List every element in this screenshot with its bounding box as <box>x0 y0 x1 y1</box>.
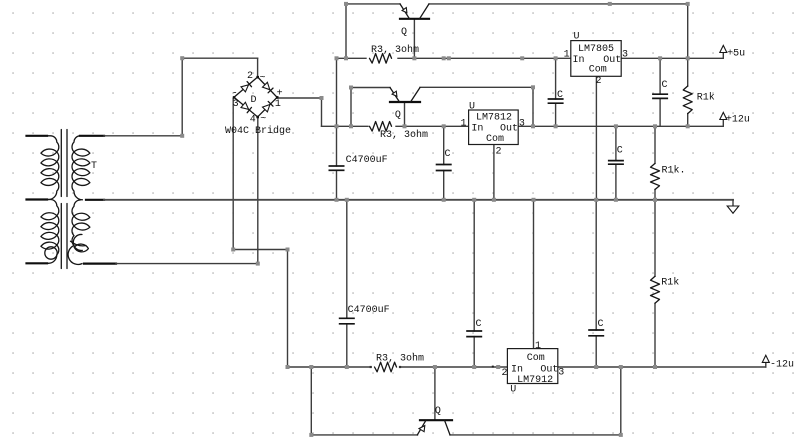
node +5v port flag <box>720 45 727 58</box>
wire Q3 collector up to -12 out <box>620 367 622 435</box>
junction ground at main vertical <box>335 198 339 202</box>
wire negative down to -12v rail <box>287 250 289 368</box>
svg-text:Com: Com <box>589 65 607 76</box>
junction +12 in at emitter feed <box>349 124 353 128</box>
wire Q1 emitter feed vertical <box>345 4 347 58</box>
wire +12 output line <box>518 125 723 127</box>
junction +5 line at Q1 base <box>412 56 416 60</box>
svg-text:U: U <box>469 101 475 112</box>
svg-text:3: 3 <box>519 118 525 129</box>
capacitor C (at 616) <box>608 161 624 165</box>
junction +12 in at main vertical <box>335 124 339 128</box>
transistor Q1 <box>400 4 429 19</box>
svg-text:C: C <box>476 319 482 330</box>
wire top rail down to R1k <box>687 4 689 86</box>
diode D top-right <box>263 82 274 93</box>
wire -12 input line after R3 to LM7912 <box>401 366 507 368</box>
node -12v port flag <box>762 355 769 367</box>
svg-text:C4700uF: C4700uF <box>346 155 388 166</box>
wire Q2 collector down to +12 out <box>532 87 534 126</box>
wire Q3 base vertical <box>434 367 436 420</box>
junction +12 out at R1k top <box>686 124 690 128</box>
capacitor C4700uF (lower) <box>339 318 355 324</box>
junction +5 out at R1k <box>686 56 690 60</box>
junction negative jog corner <box>286 248 290 252</box>
junction +5 line stub b <box>447 56 451 60</box>
wire Q3 collector horizontal <box>450 434 621 436</box>
wire main positive vertical upper <box>336 58 338 166</box>
wire C4700uF lower branch upper <box>346 200 348 318</box>
junction Q2 collector corner <box>531 85 535 89</box>
svg-text:1: 1 <box>275 99 281 110</box>
transformer T primary bottom lead <box>27 262 48 264</box>
wire +5 input line after R3 to LM7805 <box>398 57 571 59</box>
svg-text:1: 1 <box>564 50 570 61</box>
junction +5 line at main vertical <box>335 56 339 60</box>
svg-text:W04C Bridge: W04C Bridge <box>225 125 291 137</box>
svg-text:-12u: -12u <box>770 360 794 371</box>
svg-text:Q: Q <box>395 110 401 121</box>
wire capacitor branch upper (C at 596) <box>595 200 597 330</box>
svg-text:U: U <box>510 385 516 396</box>
junction +5 line stub c <box>520 56 524 60</box>
svg-text:Q: Q <box>435 406 441 417</box>
capacitor C (at 443.7) <box>436 165 452 171</box>
svg-text:C: C <box>445 149 451 160</box>
wire capacitor branch lower (C at 616) <box>615 164 617 200</box>
junction -12 in at C 474 <box>472 365 476 369</box>
wire bridge pin1 right <box>277 97 321 99</box>
resistor R1k (middle) <box>651 163 660 189</box>
svg-text:In: In <box>471 124 483 135</box>
junction -12 out at C 596 <box>594 365 598 369</box>
svg-text:R1k: R1k <box>697 91 715 103</box>
junction +12 out at C 555 <box>554 124 558 128</box>
svg-text:4: 4 <box>250 114 256 125</box>
wire capacitor branch lower (C at 555.6) <box>555 103 557 126</box>
junction -12 out at R1k chain <box>653 365 657 369</box>
wire LM7912 com up to ground <box>533 200 535 349</box>
wire positive down <box>321 98 323 126</box>
svg-text:Com: Com <box>527 353 545 364</box>
ground rail <box>104 199 733 201</box>
junction at bridge output corner <box>320 96 324 100</box>
svg-text:LM7912: LM7912 <box>517 375 553 386</box>
junction -12 in at C4700 lower <box>345 365 349 369</box>
junction ground at LM7812 com <box>492 198 496 202</box>
junction +12 in at Q2 base <box>403 124 407 128</box>
wire Q2 emitter feed vertical <box>350 88 352 127</box>
svg-text:~: ~ <box>260 73 266 84</box>
wire +5 output line <box>621 57 723 59</box>
svg-text:3: 3 <box>622 50 628 61</box>
junction +5 out at C 660 <box>658 56 662 60</box>
wire negative jog horizontal <box>233 249 287 251</box>
wire capacitor branch upper (C at 443.7) <box>443 126 445 164</box>
transformer T primary top winding <box>41 136 59 200</box>
svg-text:R3, 3ohm: R3, 3ohm <box>371 44 419 56</box>
capacitor C (at 555.6) <box>548 99 564 103</box>
svg-text:2: 2 <box>247 71 253 82</box>
diode D top-left <box>241 82 252 92</box>
junction top rail left corner <box>344 2 348 6</box>
svg-text:Q: Q <box>401 27 407 38</box>
wire bridge pin3 down <box>232 98 234 249</box>
junction bridge AC bottom at transformer lead <box>256 262 260 266</box>
svg-text:+: + <box>277 88 283 99</box>
wire R1k chain +12 to ground upper <box>654 126 656 163</box>
svg-text:Com: Com <box>486 134 504 145</box>
junction at AC top corner <box>180 56 184 60</box>
svg-text:-: - <box>232 89 238 100</box>
wire C4700uF lower branch lower <box>346 324 348 367</box>
junction negative jog top <box>231 248 235 252</box>
wire R1k to +12 output line <box>687 114 689 127</box>
junction ground at C 474 <box>472 198 476 202</box>
wire secondary top lead to node <box>104 135 182 137</box>
wire capacitor branch upper (C at 474) <box>473 200 475 331</box>
svg-text:1: 1 <box>535 341 541 352</box>
bridge rectifier D diamond <box>234 77 277 117</box>
junction ground at LM7912 com <box>532 198 536 202</box>
transformer T primary top lead <box>27 135 48 137</box>
transformer T primary bottom winding <box>41 200 59 264</box>
node +12v port flag <box>720 112 727 126</box>
svg-text:2: 2 <box>496 147 502 158</box>
junction +5 line at C 555 <box>554 56 558 60</box>
svg-text:+5u: +5u <box>727 49 745 60</box>
junction +12 out at C 616 <box>614 124 618 128</box>
wire capacitor branch upper (C at 660) <box>659 58 661 94</box>
wire Q3 emitter feed vertical <box>310 367 312 435</box>
junction ground at C 616 <box>614 198 618 202</box>
junction Q2 emitter corner <box>349 86 353 90</box>
diode D bottom-left <box>241 102 252 112</box>
capacitor C (at 660) <box>652 94 668 98</box>
junction +5 line at emitter feed <box>344 56 348 60</box>
svg-text:R3, 3ohm: R3, 3ohm <box>380 129 428 141</box>
op-amp U3 LM7912 box <box>507 349 557 384</box>
resistor R1k (top) <box>683 86 692 114</box>
wire Q2 base vertical <box>404 102 406 126</box>
junction -12 out at collector riser <box>619 365 623 369</box>
junction -12 in pin stub <box>492 366 494 368</box>
transistor Q3 <box>417 420 452 435</box>
resistor R3 (+5 branch) <box>370 54 392 64</box>
svg-text:C: C <box>598 319 604 330</box>
wire capacitor branch lower (C at 474) <box>473 337 475 367</box>
svg-text:C4700uF: C4700uF <box>348 305 390 316</box>
wire -12 output line <box>558 366 766 368</box>
wire positive to +12 input line <box>322 125 369 127</box>
wire main positive vertical lower <box>336 170 338 200</box>
junction -12 in at Q3 base <box>433 365 437 369</box>
transformer T primary center lead <box>27 198 48 200</box>
svg-text:LM7805: LM7805 <box>578 44 614 55</box>
svg-text:In: In <box>511 365 523 376</box>
svg-text:C: C <box>662 80 668 91</box>
wire capacitor branch lower (C at 660) <box>659 98 661 126</box>
svg-text:R3, 3ohm: R3, 3ohm <box>376 353 424 365</box>
transformer T secondary top winding <box>72 136 90 200</box>
wire R1k chain lower to -12 out <box>654 303 656 367</box>
wire -12 input line left <box>288 366 372 368</box>
junction at transformer top lead <box>180 134 184 138</box>
wire capacitor branch lower (C at 596) <box>595 336 597 367</box>
svg-text:Out: Out <box>500 124 518 135</box>
op-amp U1 LM7805 box <box>571 41 621 77</box>
svg-text:R1k.: R1k. <box>662 165 686 177</box>
wire R1k chain middle <box>654 190 656 277</box>
svg-text:Out: Out <box>540 365 558 376</box>
wire top rail to Q1 emitter <box>346 3 400 5</box>
svg-text:R1k: R1k <box>661 277 679 289</box>
svg-text:~: ~ <box>260 114 266 125</box>
junction +5 line stub a <box>442 56 446 60</box>
wire Q2 collector horizontal <box>420 86 533 88</box>
wire +12 input line after R3 to regulator <box>396 125 469 127</box>
svg-text:+12u: +12u <box>726 115 750 126</box>
resistor R3 (-12 branch) <box>375 362 397 372</box>
junction top rail right corner <box>686 2 690 6</box>
transformer T core <box>61 130 67 269</box>
svg-text:2: 2 <box>596 76 602 87</box>
resistor R1k (bottom) <box>651 276 660 303</box>
wire Q1 base vertical <box>413 19 415 59</box>
diode D bottom-right <box>263 101 274 112</box>
svg-text:C: C <box>557 90 563 101</box>
svg-text:In: In <box>573 55 585 66</box>
junction ground at LM7805 com <box>594 198 598 202</box>
transformer T secondary top lead <box>80 135 104 137</box>
svg-text:T: T <box>91 161 97 172</box>
capacitor C (at 474) <box>466 331 482 337</box>
junction +12 out at R1k chain <box>653 124 657 128</box>
node R3 lead dots (-12) <box>370 366 372 368</box>
junction -12 in left corner <box>286 365 290 369</box>
bridge corner pins <box>233 76 279 118</box>
wire bridge pin4 down <box>257 117 259 264</box>
transformer T secondary crossing stroke <box>71 241 87 246</box>
svg-text:LM7812: LM7812 <box>476 113 512 124</box>
svg-text:2: 2 <box>502 368 508 379</box>
wire to bridge AC top <box>182 57 257 59</box>
svg-text:C: C <box>617 145 623 156</box>
wire capacitor branch upper (C at 616) <box>615 126 617 160</box>
wire capacitor branch lower (C at 443.7) <box>443 171 445 200</box>
wire secondary bottom lead to bridge <box>116 263 258 265</box>
junction Q3 collector corner <box>619 433 623 437</box>
svg-text:3: 3 <box>233 99 239 110</box>
svg-text:U: U <box>574 32 580 43</box>
junction ground at C4700 lower <box>345 198 349 202</box>
wire capacitor branch upper (C at 555.6) <box>555 58 557 99</box>
transformer T secondary center-tap lead <box>86 199 104 201</box>
junction -12 in at Q3 feed <box>309 365 313 369</box>
junction ground at C 443 <box>442 198 446 202</box>
transformer T secondary bottom lead <box>84 263 116 265</box>
op-amp U2 LM7812 box <box>469 110 519 145</box>
wire Q2 emitter horizontal <box>351 87 390 89</box>
transistor Q2 <box>390 88 420 103</box>
svg-text:3: 3 <box>558 368 564 379</box>
wire LM7812 com to ground <box>493 145 495 200</box>
resistor R3 (+12 branch) <box>370 122 392 132</box>
ground <box>727 200 739 213</box>
junction +12 in at C 443 <box>442 124 446 128</box>
wire Q1 collector top rail <box>429 3 688 5</box>
wire up from transformer top <box>181 58 183 136</box>
capacitor C (at 596) <box>588 330 604 336</box>
wire Q3 emitter horizontal <box>311 434 417 436</box>
junction Q3 emitter corner <box>309 433 313 437</box>
junction +12 out at collector <box>531 124 535 128</box>
junction ground at R1k chain <box>653 198 657 202</box>
wire LM7805 com down to ground <box>595 76 597 200</box>
transformer T secondary bottom winding <box>68 200 90 264</box>
svg-text:1: 1 <box>461 118 467 129</box>
junction top rail mid <box>608 2 612 6</box>
wire +5 input line left <box>337 57 367 59</box>
svg-text:D: D <box>251 95 257 106</box>
wire bridge pin2 stub <box>257 58 259 77</box>
capacitor C4700uF (upper) <box>329 166 345 170</box>
